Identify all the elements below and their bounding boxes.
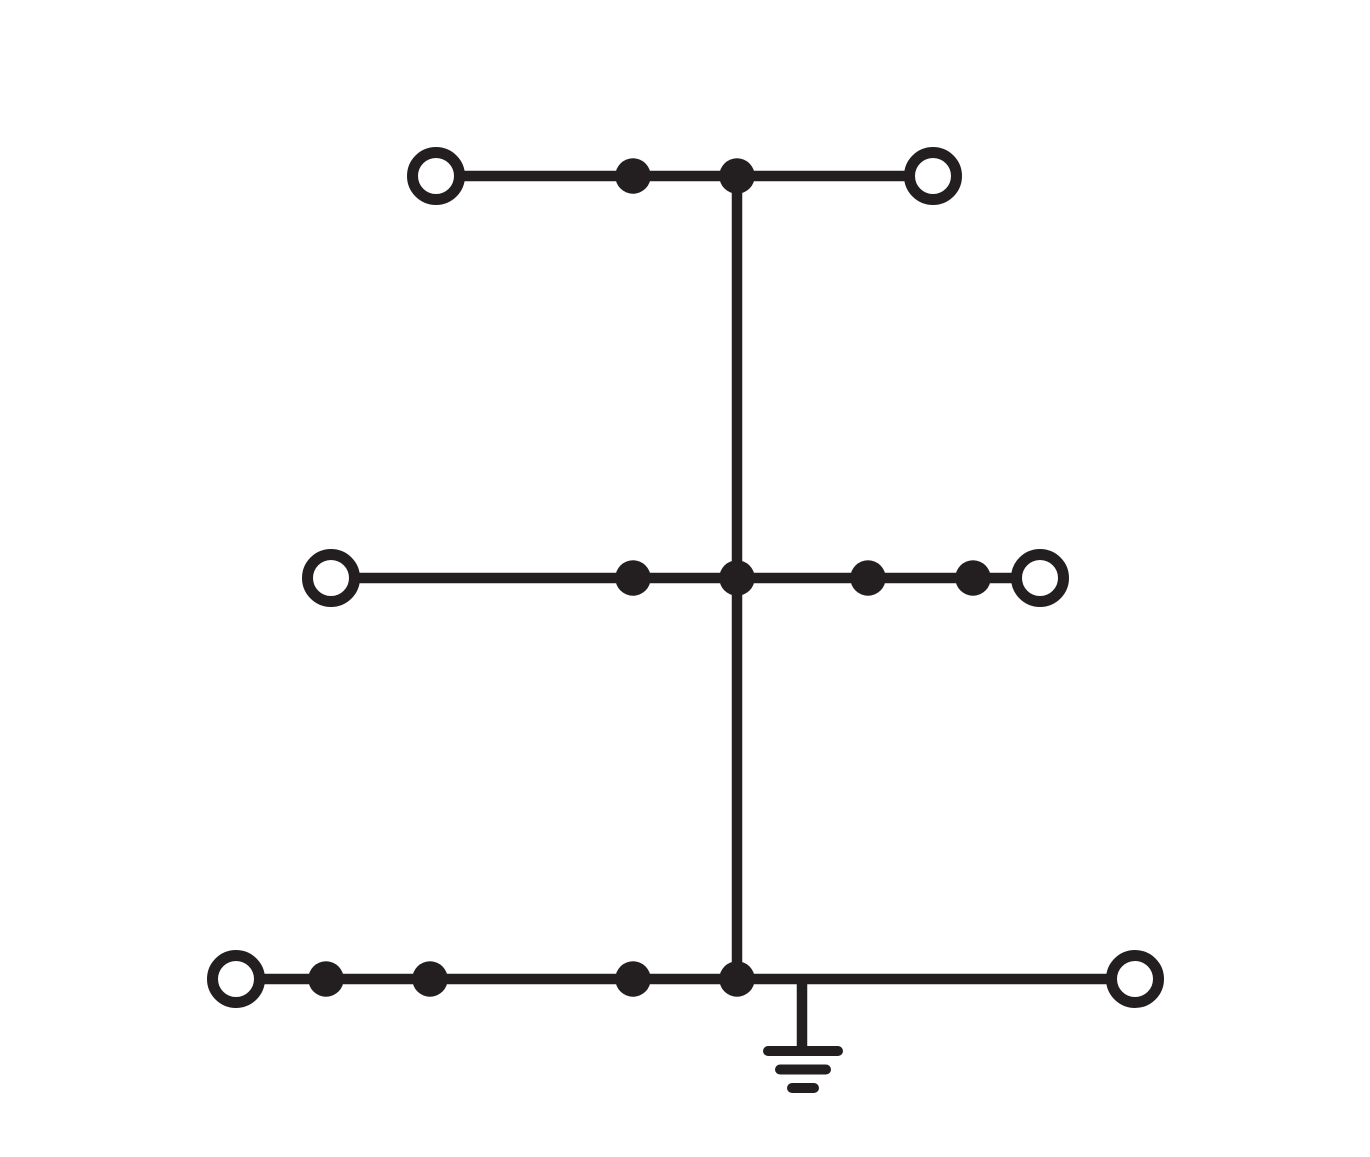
junction bottom rail at vertical bus: [719, 961, 755, 997]
terminal bottom right: [1112, 956, 1159, 1003]
wire top rail: [436, 171, 933, 182]
terminal middle left: [308, 555, 355, 602]
junction middle rail dot 4: [955, 560, 991, 596]
junction middle rail at vertical bus: [719, 560, 755, 596]
terminal top left: [413, 153, 460, 200]
terminal top right: [910, 153, 957, 200]
wire middle rail: [331, 573, 1040, 584]
junction top rail at vertical bus: [719, 158, 755, 194]
junction bottom rail dot 3: [615, 961, 651, 997]
junction middle rail dot 3: [850, 560, 886, 596]
junction bottom rail dot 1: [308, 961, 344, 997]
wire bottom rail: [236, 974, 1135, 985]
wire ground stub: [797, 979, 808, 1051]
junction middle rail dot 1: [615, 560, 651, 596]
terminal middle right: [1017, 555, 1064, 602]
terminal bottom left: [213, 956, 260, 1003]
ground: [768, 1051, 838, 1088]
junction bottom rail dot 2: [412, 961, 448, 997]
junction top rail dot 1: [615, 158, 651, 194]
wire vertical bus: [732, 176, 743, 979]
